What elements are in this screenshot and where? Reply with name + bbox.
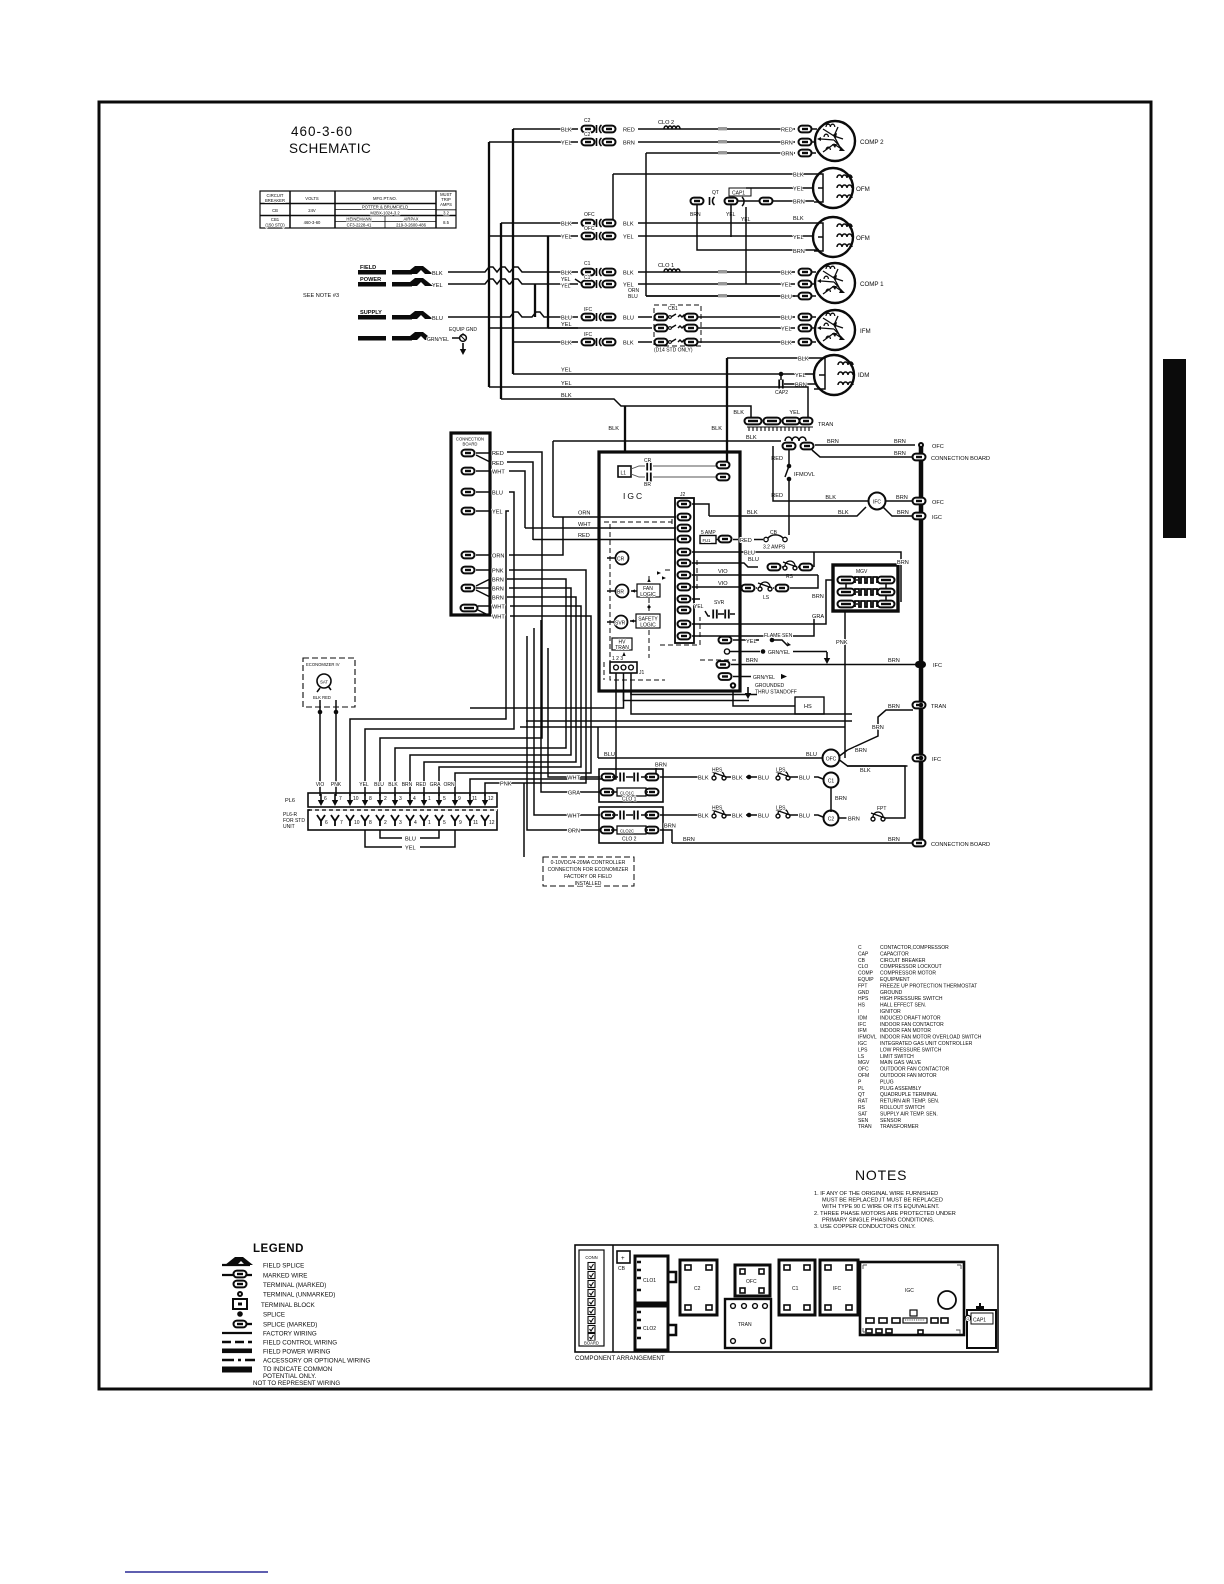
legend terminal unmarked [237, 1291, 335, 1299]
svg-text:BRN: BRN [492, 578, 504, 584]
svg-text:8: 8 [369, 820, 372, 826]
svg-text:MARKED WIRE: MARKED WIRE [263, 1273, 307, 1280]
wire BRN from MGV up-right [814, 552, 909, 602]
wire YEL long row to TRAN [489, 381, 808, 418]
svg-text:CB: CB [272, 208, 278, 213]
svg-text:IFC: IFC [873, 500, 881, 506]
svg-text:CLO 1: CLO 1 [658, 263, 674, 269]
J2 24V wires to MGV [692, 580, 834, 636]
circuit breaker table [260, 191, 456, 228]
relay contacts CR BR to pills [631, 452, 730, 488]
svg-text:BLU: BLU [628, 294, 638, 300]
svg-text:LPS: LPS [776, 806, 786, 812]
compressor motor COMP 1 [815, 263, 884, 303]
connection board wire RED1 [380, 451, 542, 796]
GRN/YEL arrow row [719, 673, 788, 681]
svg-text:VIO: VIO [718, 569, 728, 575]
svg-text:YEL: YEL [492, 510, 503, 516]
svg-text:PLUG: PLUG [880, 1079, 894, 1085]
grounded thru standoff [730, 682, 797, 699]
legend factory wiring [222, 1331, 317, 1338]
svg-text:C2: C2 [584, 118, 591, 124]
compressor lockout CLO 1 box [599, 769, 663, 803]
svg-text:OFM: OFM [856, 235, 870, 242]
compressor motor COMP 2 [815, 121, 884, 161]
svg-text:0-10VDC/4-20MA CONTROLLER: 0-10VDC/4-20MA CONTROLLER [551, 860, 626, 866]
svg-text:BLK: BLK [733, 410, 744, 416]
svg-text:LPS: LPS [776, 768, 786, 774]
connection board box [451, 433, 490, 615]
svg-text:OFC: OFC [746, 1279, 757, 1285]
svg-text:BRN: BRN [896, 495, 908, 501]
svg-text:FIELD POWER WIRING: FIELD POWER WIRING [263, 1349, 331, 1356]
svg-text:GRN/YEL: GRN/YEL [768, 650, 790, 656]
svg-text:YEL: YEL [561, 322, 572, 328]
wire IFC BLU row [561, 307, 652, 322]
svg-text:CLO: CLO [858, 964, 868, 970]
left bus vertical short [534, 284, 536, 317]
connection board wire WHT [476, 470, 525, 529]
abbreviation list [858, 945, 982, 1130]
title 460-3-60 SCHEMATIC [289, 124, 371, 156]
svg-text:YEL: YEL [561, 141, 572, 147]
svg-text:ORN: ORN [492, 554, 504, 560]
svg-text:BLK: BLK [746, 435, 757, 441]
wire BRN drop from QT to OFM2 [697, 205, 814, 250]
svg-text:YEL: YEL [781, 283, 792, 289]
svg-text:BLU: BLU [432, 316, 443, 322]
svg-text:10: 10 [354, 820, 360, 826]
svg-text:CONNECTION FOR ECONOMIZER: CONNECTION FOR ECONOMIZER [548, 867, 629, 873]
svg-text:BLU: BLU [374, 782, 384, 788]
field power wire BLK [392, 266, 578, 277]
svg-text:BLK: BLK [711, 426, 722, 432]
legend field control wiring [222, 1340, 337, 1347]
plug PL6-R lower row [283, 810, 497, 830]
svg-text:EQUIP GND: EQUIP GND [449, 327, 477, 333]
legend terminal marked [234, 1281, 327, 1289]
svg-text:BLK: BLK [860, 768, 871, 774]
svg-text:LS: LS [858, 1054, 865, 1060]
svg-text:BRN: BRN [888, 658, 900, 664]
wire OFC YEL row to OFM2 [561, 226, 814, 241]
svg-text:BRN: BRN [492, 596, 504, 602]
wire BRN to connection board terminal [812, 450, 990, 462]
PL6 wire color labels [316, 782, 455, 788]
svg-text:IGC: IGC [858, 1041, 867, 1047]
svg-text:RED: RED [416, 782, 427, 788]
svg-text:BRN: BRN [827, 439, 839, 445]
svg-text:OFC: OFC [932, 444, 944, 450]
svg-text:1: 1 [428, 796, 431, 802]
svg-text:INDOOR FAN MOTOR OVERLOAD SWIT: INDOOR FAN MOTOR OVERLOAD SWITCH [880, 1035, 982, 1041]
wire COMP1 BLU row [646, 293, 816, 301]
svg-text:FU1: FU1 [703, 538, 712, 543]
svg-text:PRIMARY SINGLE PHASING CONDITI: PRIMARY SINGLE PHASING CONDITIONS. [822, 1217, 935, 1223]
J2 BLU wire row1 [692, 551, 814, 557]
svg-text:TERMINAL BLOCK: TERMINAL BLOCK [261, 1302, 316, 1309]
induced draft motor IDM [814, 355, 869, 395]
svg-text:BRN: BRN [872, 725, 884, 731]
component arrangement panel [575, 1245, 998, 1352]
svg-text:LIMIT SWITCH: LIMIT SWITCH [880, 1054, 914, 1060]
connection board wire RED2 [476, 455, 533, 540]
svg-text:ECONOMIZER IV: ECONOMIZER IV [306, 662, 340, 667]
svg-text:5: 5 [443, 796, 446, 802]
svg-text:9: 9 [458, 796, 461, 802]
svg-text:J2: J2 [680, 492, 686, 498]
IGC integrated gas unit controller box [599, 452, 740, 691]
svg-text:BRN: BRN [835, 796, 847, 802]
svg-text:PLUG ASSEMBLY: PLUG ASSEMBLY [880, 1086, 922, 1092]
svg-text:RED: RED [578, 533, 590, 539]
wire BRN to OFC terminal [815, 439, 944, 450]
relay coil BR [607, 585, 629, 598]
svg-text:BR: BR [617, 590, 624, 596]
svg-text:BLK: BLK [798, 357, 809, 363]
indoor fan motor IFM [815, 310, 871, 350]
svg-text:OFC: OFC [584, 212, 595, 218]
svg-text:BLU: BLU [623, 316, 634, 322]
svg-text:OFC: OFC [584, 226, 595, 232]
svg-text:CAPACITOR: CAPACITOR [880, 951, 909, 957]
svg-text:YEL: YEL [405, 846, 416, 852]
svg-text:TERMINAL (UNMARKED): TERMINAL (UNMARKED) [263, 1292, 335, 1299]
svg-text:QT: QT [858, 1092, 865, 1098]
svg-text:OUTDOOR FAN MOTOR: OUTDOOR FAN MOTOR [880, 1073, 937, 1079]
long horizontal wires to CLO region [520, 721, 852, 727]
notes text [814, 1191, 956, 1230]
svg-text:4: 4 [413, 796, 416, 802]
svg-text:CB1: CB1 [271, 217, 280, 222]
svg-text:10: 10 [353, 796, 359, 802]
connection board wire ORN [476, 517, 563, 560]
svg-text:BRN: BRN [402, 782, 413, 788]
svg-text:HIGH PRESSURE SWITCH: HIGH PRESSURE SWITCH [880, 996, 943, 1002]
svg-text:CAP1: CAP1 [732, 191, 745, 197]
svg-text:SVR: SVR [714, 600, 725, 606]
blue footer line [125, 1571, 268, 1573]
svg-text:GND: GND [858, 990, 870, 996]
svg-text:I: I [858, 1009, 859, 1015]
svg-text:THRU STANDOFF: THRU STANDOFF [755, 690, 797, 696]
economizer IV box [303, 658, 355, 707]
svg-text:WHT: WHT [567, 776, 580, 782]
svg-text:WHT: WHT [492, 470, 505, 476]
svg-text:GROUND: GROUND [880, 990, 903, 996]
bus taps to rows [489, 129, 578, 342]
svg-text:BR: BR [644, 482, 651, 488]
svg-text:LEGEND: LEGEND [253, 1243, 304, 1255]
svg-text:BLU: BLU [744, 551, 755, 557]
svg-text:IDM: IDM [858, 1015, 867, 1021]
connection board wire YEL [350, 510, 509, 797]
wire PNK from MGV bottom [836, 611, 848, 758]
svg-text:UNIT: UNIT [283, 824, 295, 830]
wire BRN from CLO2 right [660, 824, 676, 844]
svg-text:CB: CB [858, 958, 866, 964]
svg-text:BLK: BLK [838, 510, 849, 516]
svg-text:BRN: BRN [793, 200, 805, 206]
svg-text:YEL: YEL [746, 639, 757, 645]
IFC component [820, 1260, 858, 1315]
svg-text:RETURN AIR TEMP. SEN.: RETURN AIR TEMP. SEN. [880, 1099, 939, 1105]
svg-text:YEL: YEL [561, 235, 572, 241]
svg-text:FPT: FPT [858, 983, 867, 989]
svg-text:C2: C2 [828, 817, 835, 823]
J2 VIO wire row1 [692, 569, 818, 575]
svg-text:3. USE COPPER CONDUCTORS ONLY.: 3. USE COPPER CONDUCTORS ONLY. [814, 1224, 916, 1230]
wire feed pos12 (J1 pin2) [470, 673, 624, 708]
wire C2 YEL row [561, 132, 817, 147]
svg-text:BLK: BLK [561, 128, 572, 134]
wire J1 pin3 long run [631, 673, 852, 714]
svg-text:COMPRESSOR LOCKOUT: COMPRESSOR LOCKOUT [880, 964, 942, 970]
svg-text:LOGIC: LOGIC [640, 592, 656, 598]
svg-text:SAT: SAT [858, 1111, 867, 1117]
svg-text:AMPS: AMPS [440, 202, 452, 207]
svg-text:BLU: BLU [799, 776, 810, 782]
svg-text:6: 6 [324, 796, 327, 802]
svg-text:C2: C2 [584, 132, 591, 138]
svg-text:3: 3 [399, 820, 402, 826]
wire YEL drop from CAP1 to COMP1 YEL [745, 207, 747, 284]
legend splice marked [234, 1321, 318, 1329]
equip gnd symbol [449, 327, 477, 355]
flame sensor FLAME SEN row [719, 633, 793, 646]
svg-text:RED: RED [492, 461, 504, 467]
legend accessory wiring [222, 1358, 370, 1365]
wire J2 pin1 to BLK out [692, 504, 709, 516]
svg-text:INDUCED DRAFT MOTOR: INDUCED DRAFT MOTOR [880, 1015, 941, 1021]
legend field power wiring [222, 1349, 331, 1356]
wire BLK out of IGC right [709, 507, 866, 516]
conn board strip [579, 1250, 604, 1346]
heavy common potential line [919, 445, 924, 843]
page border [99, 102, 1151, 1389]
outdoor fan motor OFM 2 [793, 217, 870, 257]
fuse FU1 5 AMP [700, 530, 763, 544]
svg-text:5: 5 [443, 820, 446, 826]
svg-text:BLU: BLU [781, 295, 792, 301]
svg-text:BRN: BRN [623, 141, 635, 147]
HV TRAN box [612, 638, 632, 651]
svg-text:CONNECTION BOARD: CONNECTION BOARD [931, 456, 990, 462]
svg-text:TRAN: TRAN [738, 1322, 752, 1328]
svg-text:C1: C1 [584, 261, 591, 267]
svg-text:CLO 1: CLO 1 [622, 797, 637, 803]
wire GRA from MGV down [812, 594, 840, 620]
contactor coil IFC [869, 493, 886, 510]
svg-text:VIO: VIO [718, 581, 728, 587]
rollout switch RS row [692, 552, 814, 580]
svg-text:HPS: HPS [712, 806, 723, 812]
wire feed pos11 (J1 pin1) [470, 673, 616, 796]
svg-text:3.2 AMPS: 3.2 AMPS [763, 545, 786, 551]
svg-text:VIO: VIO [316, 782, 325, 788]
svg-text:IGC: IGC [932, 515, 942, 521]
svg-text:GROUNDED: GROUNDED [755, 683, 785, 689]
wire OFC BLK row to OFM2 [561, 212, 814, 228]
svg-text:BLK: BLK [388, 782, 398, 788]
svg-text:CAP1: CAP1 [973, 1318, 986, 1324]
economizer wires to PL6 [318, 700, 339, 796]
svg-text:1: 1 [428, 820, 431, 826]
legend splice [237, 1311, 285, 1318]
svg-text:FREEZE UP PROTECTION THERMOSTA: FREEZE UP PROTECTION THERMOSTAT [880, 983, 977, 989]
wire BLK drop to IGC L1 [608, 406, 625, 452]
svg-text:J1: J1 [639, 670, 645, 676]
svg-text:460-3-60: 460-3-60 [304, 220, 321, 225]
svg-text:7: 7 [340, 820, 343, 826]
svg-text:BLK: BLK [732, 776, 743, 782]
wire OFM1 YEL row [746, 187, 814, 193]
legend field splice [222, 1257, 304, 1270]
svg-text:PL6: PL6 [285, 798, 295, 804]
svg-text:YEL: YEL [432, 283, 443, 289]
hall effect sensor HS box [733, 691, 824, 714]
wire OFM1 BRN row [772, 200, 814, 206]
svg-text:WHT: WHT [578, 522, 591, 528]
wire BRN C1 to C2 [831, 788, 847, 813]
svg-text:FPT: FPT [877, 806, 886, 812]
svg-text:INTEGRATED GAS UNIT CONTROLLER: INTEGRATED GAS UNIT CONTROLLER [880, 1041, 973, 1047]
svg-text:BLK: BLK [825, 495, 836, 501]
svg-text:MGV: MGV [858, 1060, 870, 1066]
svg-text:BRN: BRN [894, 439, 906, 445]
plug PL6 upper row [285, 793, 497, 807]
svg-text:IGNITOR: IGNITOR [880, 1009, 901, 1015]
svg-text:TO INDICATE COMMON: TO INDICATE COMMON [263, 1366, 332, 1373]
svg-text:YEL: YEL [694, 604, 704, 610]
svg-text:CR: CR [644, 458, 652, 464]
wire BLK from TRAN secondary down [773, 446, 868, 501]
legend common potential [222, 1366, 340, 1387]
svg-text:SEE NOTE #3: SEE NOTE #3 [303, 293, 339, 299]
svg-text:YEL: YEL [561, 368, 572, 374]
svg-text:BRN: BRN [894, 451, 906, 457]
svg-text:BLK: BLK [623, 271, 634, 277]
left bus vertical BLK [512, 129, 514, 374]
svg-text:NOT TO REPRESENT WIRING: NOT TO REPRESENT WIRING [253, 1380, 340, 1387]
svg-text:ORN: ORN [443, 782, 455, 788]
svg-text:CB1: CB1 [668, 306, 678, 312]
svg-text:OFC: OFC [826, 757, 837, 763]
svg-text:YEL: YEL [561, 284, 571, 290]
relay coil CR [607, 552, 629, 565]
svg-text:9: 9 [459, 820, 462, 826]
svg-text:ACCESSORY OR OPTIONAL WIRING: ACCESSORY OR OPTIONAL WIRING [263, 1358, 370, 1365]
wire BLU jumper under PL6 [380, 830, 439, 843]
CLO2 input wires WHT ORN [527, 628, 600, 835]
svg-text:NOTES: NOTES [855, 1167, 907, 1183]
wire BLK drop to IGC right pills [711, 358, 727, 452]
svg-text:FACTORY OR FIELD: FACTORY OR FIELD [564, 874, 612, 880]
circuit breaker CB 3.2 AMPS [763, 530, 787, 551]
svg-text:HS: HS [858, 1003, 866, 1009]
svg-text:BLU: BLU [492, 491, 503, 497]
svg-text:C1: C1 [584, 275, 591, 281]
svg-text:FIELD CONTROL WIRING: FIELD CONTROL WIRING [263, 1340, 337, 1347]
svg-text:ORN: ORN [568, 829, 580, 835]
svg-text:G: G [967, 1317, 970, 1321]
wire C2 BLK row [561, 118, 817, 134]
svg-text:YEL: YEL [781, 327, 792, 333]
svg-text:BLU: BLU [806, 752, 817, 758]
wire IFC BLK row [561, 332, 652, 347]
svg-text:12: 12 [488, 796, 494, 802]
svg-text:IFC: IFC [584, 307, 592, 313]
transformer TRAN primary [745, 418, 834, 431]
svg-text:BLU: BLU [781, 316, 792, 322]
svg-text:6: 6 [325, 820, 328, 826]
svg-text:WHT: WHT [567, 814, 580, 820]
svg-text:BRN: BRN [855, 748, 867, 754]
svg-text:1 2 3: 1 2 3 [612, 656, 623, 662]
svg-text:IFMOVL: IFMOVL [858, 1035, 877, 1041]
wire YEL drop from CAP1 C to OFM2 [730, 205, 732, 237]
svg-text:CR: CR [617, 557, 625, 563]
connection board wire PNK [476, 569, 586, 858]
svg-text:1. IF ANY OF THE ORIGINAL WIRE: 1. IF ANY OF THE ORIGINAL WIRE FURNISHED [814, 1191, 938, 1197]
svg-text:PNK: PNK [331, 782, 342, 788]
svg-text:BLK: BLK [793, 173, 804, 179]
C2 component [680, 1260, 717, 1315]
wire bundle feeds to PL6 [470, 673, 852, 796]
svg-text:CLO 2: CLO 2 [658, 120, 674, 126]
svg-text:TRANSFORMER: TRANSFORMER [880, 1124, 919, 1130]
svg-text:BRN: BRN [793, 249, 805, 255]
svg-text:BLU: BLU [748, 557, 759, 563]
svg-text:CONTACTOR,COMPRESSOR: CONTACTOR,COMPRESSOR [880, 945, 949, 951]
legend terminal block [233, 1299, 316, 1309]
svg-text:SPLICE: SPLICE [263, 1312, 285, 1319]
svg-text:INDOOR FAN MOTOR: INDOOR FAN MOTOR [880, 1028, 931, 1034]
outdoor fan motor OFM 1 [813, 168, 870, 208]
svg-text:OFC: OFC [858, 1067, 869, 1073]
svg-text:ORN: ORN [578, 511, 590, 517]
wire IDM BLK row [727, 357, 815, 363]
logic arrows [622, 571, 666, 656]
svg-text:BRN: BRN [746, 658, 758, 664]
svg-text:OFM: OFM [856, 186, 870, 193]
svg-text:WITH TYPE 90 C WIRE OR ITS EQU: WITH TYPE 90 C WIRE OR ITS EQUIVALENT. [822, 1204, 940, 1210]
svg-text:11: 11 [473, 820, 478, 826]
left bus vertical mid [500, 223, 502, 399]
svg-text:TRAN: TRAN [858, 1124, 872, 1130]
svg-text:BLK: BLK [623, 341, 634, 347]
svg-text:PNK: PNK [492, 569, 504, 575]
svg-text:ORN: ORN [781, 152, 793, 158]
svg-text:GRA: GRA [568, 791, 580, 797]
circuit breaker CB1 box [654, 305, 701, 354]
wires ORN WHT RED into J2 [525, 441, 676, 540]
CAP1 component [967, 1310, 996, 1348]
svg-text:OFC: OFC [932, 500, 944, 506]
svg-text:LPS: LPS [858, 1047, 868, 1053]
svg-text:PNK: PNK [836, 640, 848, 646]
wire C1 YEL row [561, 275, 816, 290]
svg-text:BLK: BLK [698, 814, 709, 820]
svg-text:IFC: IFC [858, 1022, 866, 1028]
L1 terminal [618, 466, 631, 477]
svg-text:BRN: BRN [781, 141, 793, 147]
svg-text:CB: CB [618, 1266, 626, 1272]
terminal and GRN/YEL gnd row [724, 649, 830, 664]
svg-text:L1: L1 [621, 471, 627, 477]
svg-text:YEL: YEL [793, 235, 804, 241]
svg-text:CLO2: CLO2 [643, 1326, 656, 1332]
